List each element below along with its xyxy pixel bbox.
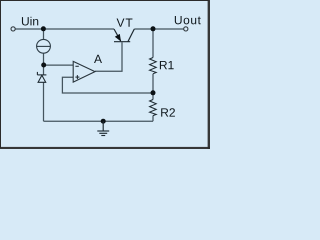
label VT [117, 19, 133, 27]
label A [94, 55, 102, 63]
wire ground rail [44, 120, 154, 122]
node junction current source top [41, 26, 46, 31]
wire divider node to op-amp non-inverting input [62, 77, 153, 93]
frame border [1, 1, 210, 149]
node junction Uout / R1 [151, 26, 156, 31]
wire R2 to ground rail [152, 116, 154, 122]
wire zener anode to ground rail [43, 82, 45, 121]
node junction ground [101, 119, 106, 124]
zener diode VD [37, 72, 46, 82]
resistor R1 [150, 58, 157, 74]
wire R1 to divider node [152, 74, 154, 93]
wire transistor emitter to Uout terminal [134, 28, 183, 30]
label R1 [160, 61, 174, 69]
wire current source to zener node [43, 53, 45, 65]
ground [97, 121, 109, 135]
wire zener node to zener cathode [43, 65, 45, 75]
node junction zener / op-amp inverting input [41, 63, 46, 68]
wire Uout node to R1 [152, 29, 154, 58]
resistor R2 [150, 100, 157, 116]
transistor VT [114, 29, 134, 42]
label R2 [161, 108, 175, 116]
label Uout [175, 16, 201, 24]
wire op-amp output to transistor base [95, 42, 122, 71]
wire zener node to op-amp inverting input [44, 64, 74, 66]
transistor VT emitter arrowhead [115, 34, 121, 42]
wire Uin terminal to transistor emitter [15, 28, 114, 30]
terminal Uout [184, 27, 188, 31]
op-amp A [73, 61, 95, 82]
label Uin [22, 17, 38, 26]
terminal Uin [11, 27, 15, 31]
wire divider node to R2 [152, 93, 154, 100]
current source G [37, 39, 51, 53]
wire junction to current source [43, 29, 45, 39]
node junction R1/R2 divider [151, 90, 156, 95]
